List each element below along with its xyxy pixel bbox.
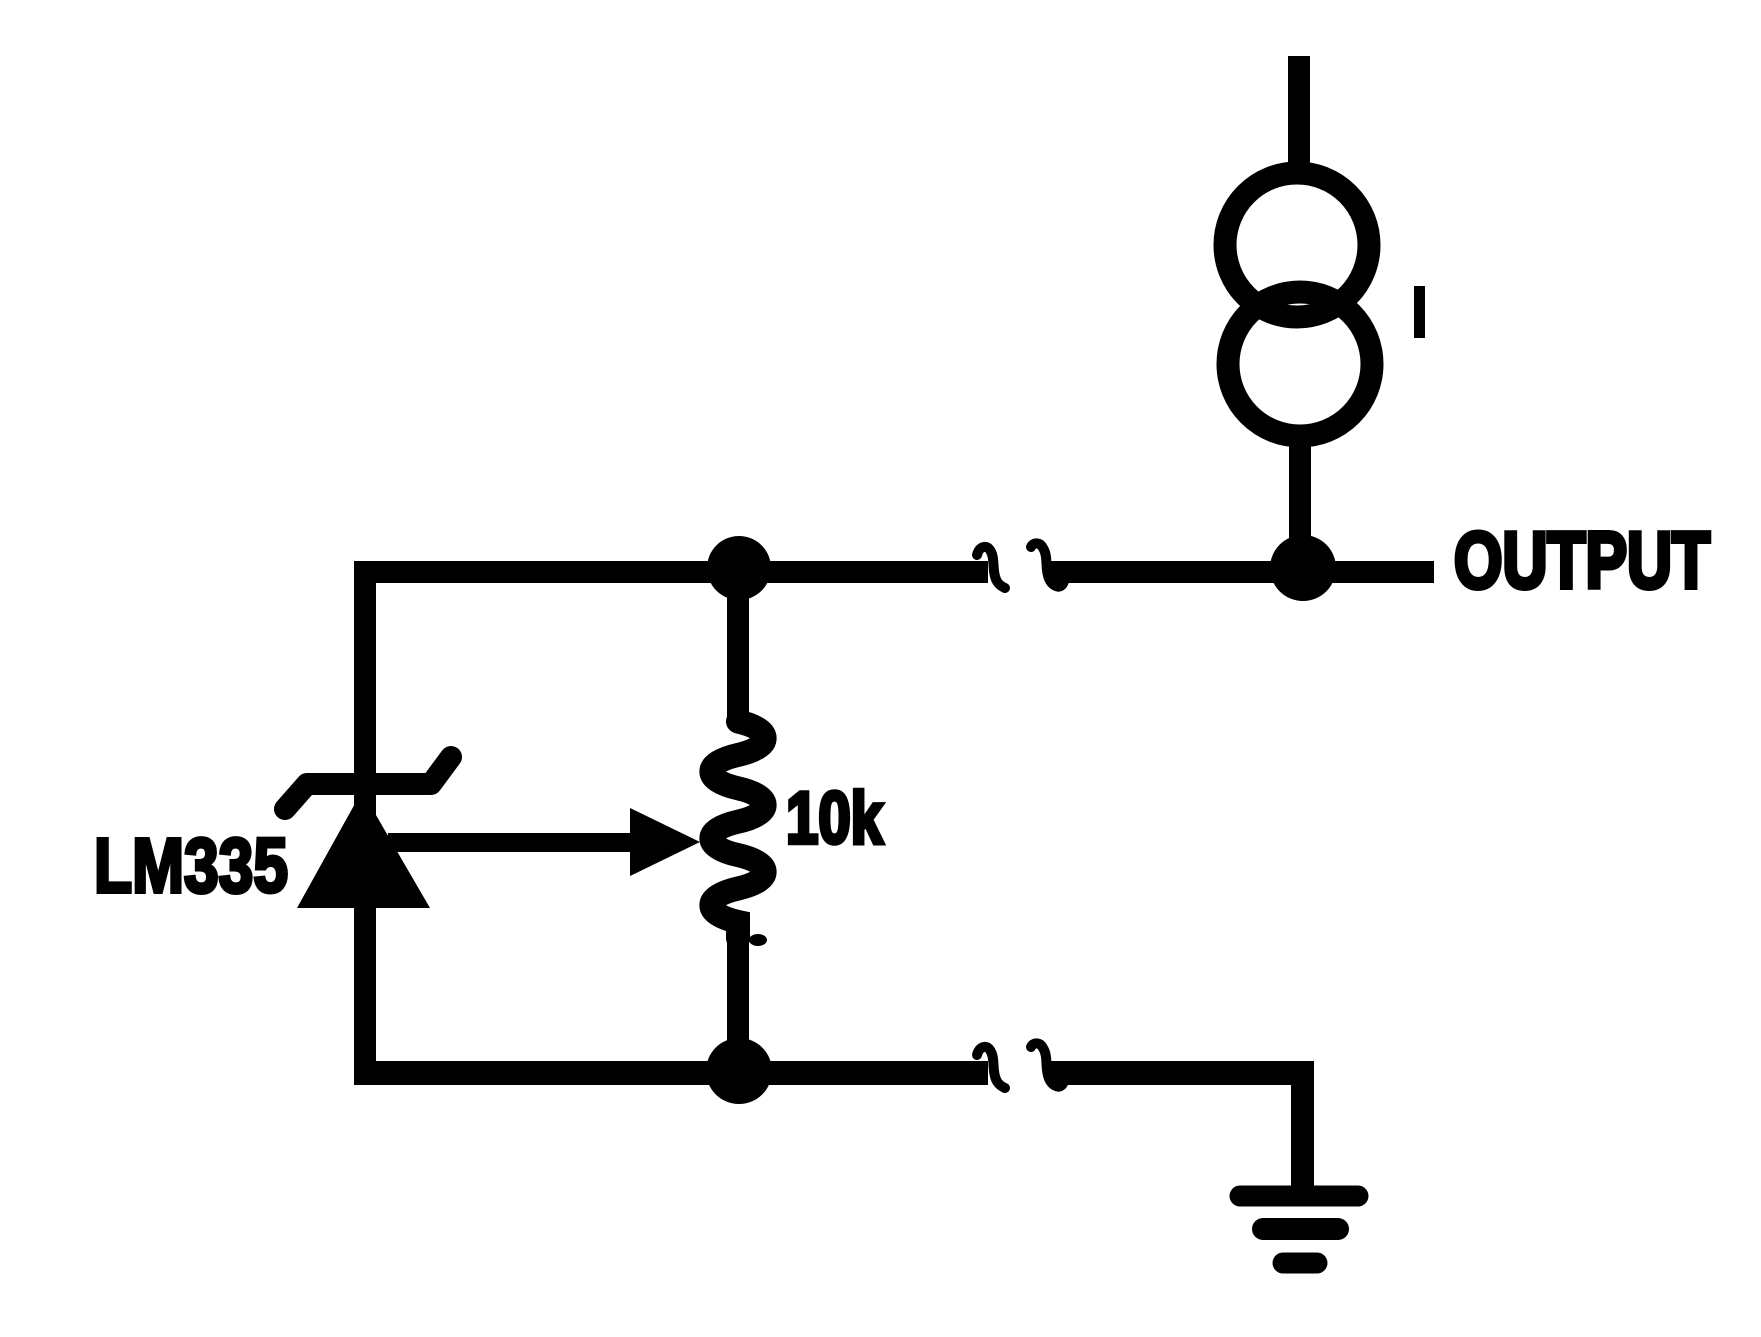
wire: vertical drop to ground: [1291, 1061, 1314, 1191]
wire: pot top lead: [727, 568, 749, 723]
wire break mark top-left: [977, 547, 1005, 588]
zener diode LM335 anode triangle: [297, 791, 430, 908]
current source I top lead wire: [1288, 56, 1310, 168]
svg-text:OUTPUT: OUTPUT: [1454, 516, 1710, 605]
ink speck near pot bottom: [749, 934, 767, 946]
wire break mark bottom-right: [1031, 1043, 1064, 1086]
current source I (two overlapping circles): [1225, 173, 1372, 436]
wire: pot bottom lead: [727, 930, 749, 1073]
adjust arrow shaft from LM335 to pot wiper: [388, 833, 635, 852]
wire from current source down to output node: [1289, 446, 1311, 570]
wire: left branch vertical (LM335): [354, 561, 376, 1085]
ground symbol: [1240, 1196, 1358, 1263]
svg-text:LM335: LM335: [94, 823, 288, 909]
zener diode LM335 cathode bar with bent tails: [285, 757, 451, 809]
adjust arrow head: [630, 808, 700, 876]
node: junction dot at OUTPUT / current source: [1270, 535, 1336, 601]
svg-text:10k: 10k: [786, 778, 883, 859]
current source value label I: [1414, 286, 1425, 338]
wire: bottom rail right segment to ground drop: [1050, 1061, 1314, 1085]
node: junction dot at 10k bottom: [706, 1038, 772, 1104]
wire break mark bottom-left: [977, 1047, 1005, 1088]
wire: top rail right segment (break to OUTPUT): [1050, 561, 1434, 583]
potentiometer 10k zigzag body: [711, 722, 764, 939]
wire: bottom rail left segment: [354, 1061, 988, 1085]
wire: top rail left segment (LM335 node to break): [354, 561, 988, 583]
wire break mark top-right: [1031, 543, 1064, 586]
node: junction dot at 10k top: [707, 536, 771, 600]
